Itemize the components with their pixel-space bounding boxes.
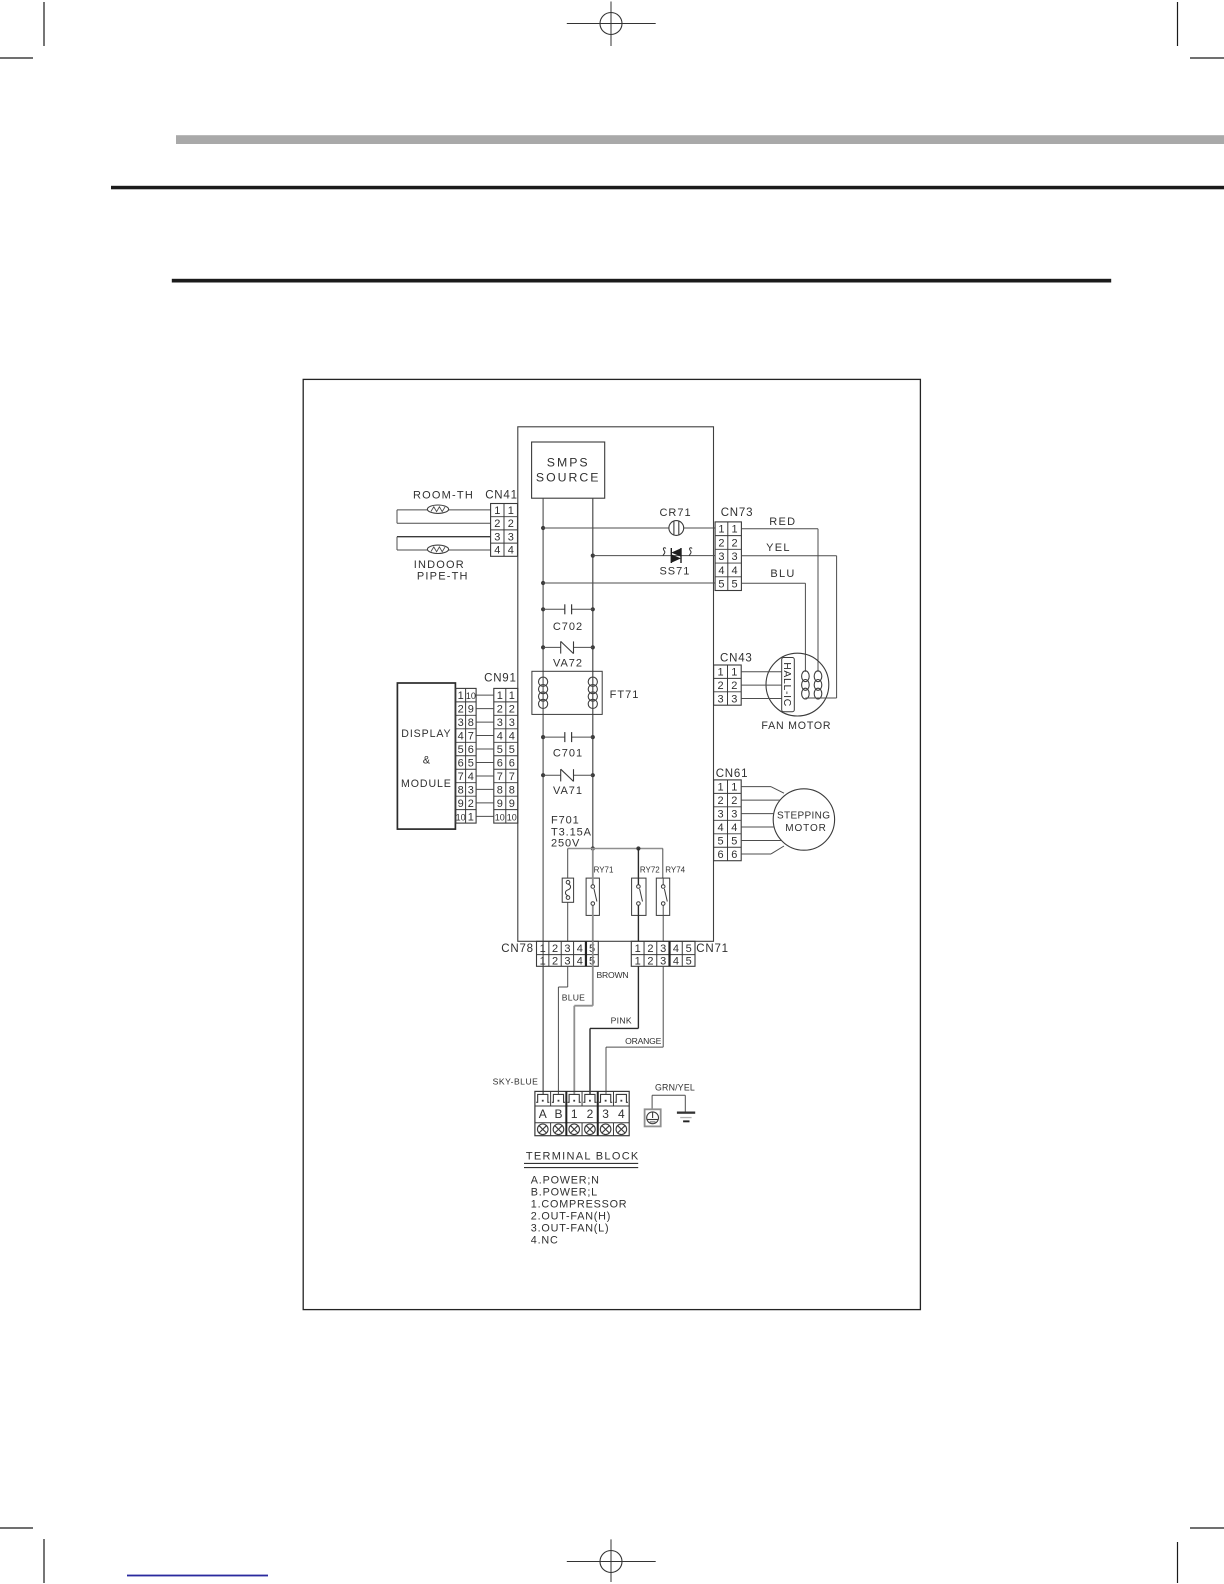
svg-text:3: 3: [497, 717, 503, 729]
svg-text:1: 1: [497, 690, 503, 702]
display module block: [397, 683, 455, 829]
svg-text:2: 2: [732, 537, 738, 549]
svg-text:3: 3: [509, 717, 515, 729]
wire SMPS to SS71: [593, 555, 715, 557]
svg-text:10: 10: [456, 812, 466, 822]
svg-text:CN78: CN78: [501, 943, 534, 955]
svg-text:9: 9: [458, 798, 464, 810]
svg-text:CN41: CN41: [485, 490, 518, 502]
svg-text:1: 1: [731, 782, 737, 794]
svg-text:2: 2: [731, 680, 737, 692]
svg-text:7: 7: [497, 771, 503, 783]
wires display to CN91: [476, 695, 494, 816]
svg-text:VA72: VA72: [553, 658, 583, 670]
svg-text:4: 4: [509, 730, 515, 742]
svg-text:1: 1: [540, 943, 546, 955]
svg-text:C701: C701: [553, 748, 583, 760]
svg-text:RY74: RY74: [665, 866, 685, 875]
svg-text:RED: RED: [769, 516, 796, 528]
svg-text:5: 5: [717, 835, 723, 847]
svg-text:MOTOR: MOTOR: [785, 823, 827, 834]
svg-text:4: 4: [577, 956, 583, 968]
wire BROWN: [574, 941, 628, 1094]
svg-text:5: 5: [497, 744, 503, 756]
svg-text:2: 2: [647, 943, 653, 955]
registration mark bottom: [567, 1539, 656, 1582]
svg-text:1: 1: [718, 524, 724, 536]
svg-text:A: A: [539, 1107, 547, 1121]
svg-text:FT71: FT71: [610, 689, 640, 701]
svg-text:5: 5: [731, 835, 737, 847]
svg-text:6: 6: [509, 757, 515, 769]
svg-text:BROWN: BROWN: [597, 970, 629, 980]
footer blue rule: [127, 1575, 268, 1577]
svg-text:5: 5: [458, 744, 464, 756]
svg-text:8: 8: [497, 784, 503, 796]
svg-text:3: 3: [717, 693, 723, 705]
svg-text:9: 9: [468, 704, 474, 716]
svg-text:3: 3: [660, 943, 666, 955]
section rule: [172, 279, 1111, 283]
relay RY74: [656, 866, 685, 942]
svg-text:2: 2: [509, 704, 515, 716]
svg-text:CR71: CR71: [659, 507, 691, 519]
svg-text:SMPS: SMPS: [547, 456, 590, 470]
svg-text:7: 7: [509, 771, 515, 783]
wire SKY-BLUE: [493, 966, 543, 1094]
svg-text:F701: F701: [551, 815, 580, 827]
svg-text:6: 6: [497, 757, 503, 769]
legend: [531, 1175, 628, 1247]
svg-text:5: 5: [468, 757, 474, 769]
svg-text:1: 1: [468, 811, 474, 823]
svg-text:3: 3: [564, 943, 570, 955]
svg-text:2: 2: [458, 704, 464, 716]
svg-text:6: 6: [458, 757, 464, 769]
svg-text:4: 4: [718, 565, 724, 577]
svg-text:1: 1: [508, 505, 514, 517]
svg-text:6: 6: [468, 744, 474, 756]
svg-text:250V: 250V: [551, 838, 580, 850]
svg-text:CN61: CN61: [716, 768, 749, 780]
svg-text:BLU: BLU: [770, 568, 795, 580]
wire RED: [741, 516, 818, 672]
capacitor C701: [543, 732, 593, 760]
svg-text:8: 8: [509, 784, 515, 796]
relay RY71: [586, 849, 614, 942]
header gray bar: [176, 135, 1224, 144]
svg-text:SKY-BLUE: SKY-BLUE: [493, 1076, 539, 1086]
wires CN61 to stepping motor: [741, 787, 784, 854]
svg-text:4: 4: [508, 545, 514, 557]
svg-text:1: 1: [458, 690, 464, 702]
svg-text:5: 5: [686, 956, 692, 968]
svg-text:4: 4: [458, 730, 464, 742]
svg-text:2: 2: [647, 956, 653, 968]
svg-text:2: 2: [587, 1107, 594, 1121]
svg-text:INDOOR: INDOOR: [414, 559, 465, 571]
varistor VA72: [543, 641, 593, 669]
crop mark bottom-left: [0, 1528, 44, 1583]
svg-text:SOURCE: SOURCE: [536, 471, 601, 485]
crop mark top-left: [0, 2, 44, 58]
svg-text:BLUE: BLUE: [562, 993, 585, 1003]
svg-text:4: 4: [717, 822, 723, 834]
connector CN43: [714, 652, 753, 705]
connector CN41: [485, 490, 518, 557]
svg-text:4: 4: [673, 956, 679, 968]
svg-text:2: 2: [731, 795, 737, 807]
wire SMPS to CR71: [543, 527, 715, 529]
svg-text:TERMINAL BLOCK: TERMINAL BLOCK: [526, 1150, 640, 1162]
svg-text:5: 5: [509, 744, 515, 756]
svg-text:7: 7: [468, 730, 474, 742]
svg-text:CN71: CN71: [696, 943, 729, 955]
svg-text:4: 4: [618, 1107, 625, 1121]
relay RY72: [632, 866, 661, 942]
svg-text:3: 3: [458, 717, 464, 729]
connector CN61: [714, 768, 749, 861]
svg-text:MODULE: MODULE: [401, 778, 452, 790]
svg-text:4: 4: [732, 565, 738, 577]
wire distribution bus: [568, 846, 663, 878]
svg-text:ORANGE: ORANGE: [625, 1036, 662, 1046]
svg-text:HALL-IC: HALL-IC: [781, 662, 792, 707]
connector CN73: [715, 507, 753, 591]
varistor VA71: [543, 769, 593, 797]
wire YEL: [741, 542, 836, 698]
wire right rail: [591, 498, 595, 850]
svg-text:5: 5: [718, 579, 724, 591]
svg-text:1: 1: [717, 667, 723, 679]
svg-text:10: 10: [507, 812, 517, 822]
svg-text:2: 2: [494, 518, 500, 530]
svg-text:4: 4: [494, 545, 500, 557]
earth ground: [677, 1095, 695, 1122]
svg-text:CN73: CN73: [721, 507, 754, 519]
svg-text:C702: C702: [553, 621, 583, 633]
terminal block title: [524, 1150, 640, 1167]
svg-text:3: 3: [494, 531, 500, 543]
fuse F701 value label: [551, 815, 592, 850]
svg-text:1: 1: [540, 956, 546, 968]
capacitor C702: [543, 604, 593, 633]
wire left rail: [541, 498, 545, 1094]
display side connector: [456, 688, 476, 823]
svg-text:7: 7: [458, 771, 464, 783]
svg-text:STEPPING: STEPPING: [777, 811, 830, 822]
svg-text:3: 3: [660, 956, 666, 968]
wire PINK: [590, 966, 638, 1094]
svg-text:2.OUT-FAN(H): 2.OUT-FAN(H): [531, 1211, 611, 1223]
connector CN71: [631, 941, 729, 967]
svg-text:1: 1: [509, 690, 515, 702]
svg-text:1: 1: [571, 1107, 578, 1121]
thermistor ROOM-TH: [397, 490, 491, 524]
wire left rail to CN73 pin5: [543, 582, 715, 584]
svg-text:PIPE-TH: PIPE-TH: [417, 570, 469, 582]
wire ORANGE: [606, 966, 663, 1094]
svg-text:&: &: [423, 755, 431, 767]
svg-text:1: 1: [635, 943, 641, 955]
svg-text:3: 3: [468, 784, 474, 796]
svg-text:3: 3: [717, 808, 723, 820]
svg-text:5: 5: [732, 579, 738, 591]
stepping motor: [773, 789, 834, 850]
svg-text:9: 9: [509, 798, 515, 810]
fuse CR71: [659, 507, 691, 535]
svg-text:2: 2: [468, 798, 474, 810]
triac SS71: [659, 548, 692, 578]
line filter FT71: [532, 671, 639, 714]
connector CN78: [501, 941, 598, 967]
svg-text:1.COMPRESSOR: 1.COMPRESSOR: [531, 1198, 628, 1210]
SMPS source block: [532, 442, 605, 498]
svg-text:4: 4: [577, 943, 583, 955]
svg-text:B: B: [554, 1107, 562, 1121]
svg-text:4.NC: 4.NC: [531, 1234, 559, 1246]
svg-text:SS71: SS71: [659, 565, 690, 577]
svg-text:5: 5: [686, 943, 692, 955]
wires CN43 to hall IC: [741, 672, 782, 699]
svg-text:3: 3: [564, 956, 570, 968]
svg-text:1: 1: [731, 667, 737, 679]
svg-text:2: 2: [552, 943, 558, 955]
ground terminal GRN/YEL: [645, 1082, 695, 1126]
thermistor INDOOR PIPE-TH: [397, 537, 491, 583]
svg-text:2: 2: [497, 704, 503, 716]
PCB outline: [518, 427, 714, 942]
wire BLUE: [558, 966, 585, 1094]
svg-text:1: 1: [494, 505, 500, 517]
svg-text:10: 10: [466, 691, 476, 701]
svg-text:2: 2: [552, 956, 558, 968]
svg-text:6: 6: [717, 849, 723, 861]
fuse F701: [562, 878, 573, 941]
svg-text:ROOM-TH: ROOM-TH: [413, 490, 474, 502]
svg-text:FAN MOTOR: FAN MOTOR: [761, 720, 831, 732]
svg-text:CN91: CN91: [484, 672, 517, 684]
svg-text:YEL: YEL: [766, 542, 791, 554]
svg-text:4: 4: [673, 943, 679, 955]
svg-text:RY72: RY72: [640, 866, 660, 875]
svg-text:1: 1: [635, 956, 641, 968]
svg-text:8: 8: [458, 784, 464, 796]
diagram frame: [303, 379, 920, 1309]
svg-text:4: 4: [497, 730, 503, 742]
svg-text:9: 9: [497, 798, 503, 810]
hall IC: [781, 658, 794, 712]
svg-text:T3.15A: T3.15A: [551, 826, 592, 838]
svg-text:PINK: PINK: [611, 1016, 632, 1026]
svg-text:1: 1: [732, 524, 738, 536]
svg-text:3: 3: [508, 531, 514, 543]
svg-text:VA71: VA71: [553, 785, 583, 797]
svg-text:6: 6: [731, 849, 737, 861]
wire BLU: [741, 568, 805, 672]
connector CN91: [484, 672, 518, 823]
svg-text:4: 4: [468, 771, 474, 783]
svg-text:A.POWER;N: A.POWER;N: [531, 1175, 600, 1187]
svg-text:2: 2: [718, 537, 724, 549]
svg-text:3.OUT-FAN(L): 3.OUT-FAN(L): [531, 1223, 610, 1235]
terminal block: [535, 1091, 629, 1135]
svg-text:4: 4: [731, 822, 737, 834]
svg-text:2: 2: [508, 518, 514, 530]
svg-text:8: 8: [468, 717, 474, 729]
fan motor: [761, 653, 836, 732]
svg-text:2: 2: [717, 680, 723, 692]
registration mark top: [567, 2, 656, 47]
crop mark top-right: [1178, 2, 1224, 58]
svg-text:3: 3: [718, 551, 724, 563]
svg-text:2: 2: [717, 795, 723, 807]
svg-text:3: 3: [731, 808, 737, 820]
header rule: [111, 186, 1224, 190]
svg-text:3: 3: [732, 551, 738, 563]
svg-text:CN43: CN43: [720, 652, 753, 664]
svg-text:3: 3: [731, 693, 737, 705]
svg-text:DISPLAY: DISPLAY: [401, 728, 451, 740]
svg-text:3: 3: [602, 1107, 609, 1121]
svg-text:RY71: RY71: [594, 866, 614, 875]
svg-text:10: 10: [495, 812, 505, 822]
svg-text:GRN/YEL: GRN/YEL: [655, 1082, 695, 1092]
svg-text:1: 1: [717, 782, 723, 794]
crop mark bottom-right: [1178, 1528, 1224, 1583]
svg-text:B.POWER;L: B.POWER;L: [531, 1186, 598, 1198]
